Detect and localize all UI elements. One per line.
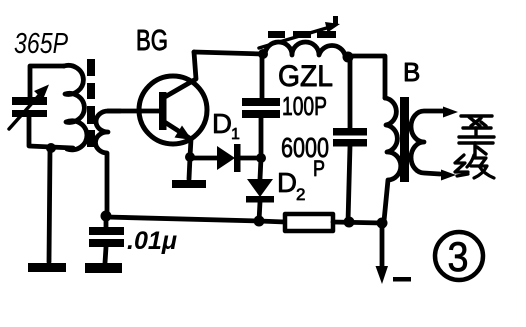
node supply junction: [377, 218, 388, 229]
node emitter junction: [185, 152, 195, 162]
svg-text:3: 3: [448, 233, 469, 280]
core dashed line of L2: [268, 31, 336, 38]
label zhi (to): [459, 116, 494, 137]
wire node down to C4: [348, 57, 353, 128]
svg-text:D: D: [277, 167, 297, 198]
transformer B primary winding: [384, 98, 401, 221]
svg-text:P: P: [313, 156, 325, 181]
label ji (stage): [455, 155, 494, 178]
arrow secondary bottom: [441, 170, 456, 181]
label D2: [277, 167, 305, 204]
node top rail junction: [258, 49, 268, 59]
inductor L2 GZL coil: [265, 42, 345, 55]
svg-text:100P: 100P: [282, 91, 327, 121]
ground bar under C2: [85, 263, 122, 273]
wire bottom rail left: [106, 217, 259, 221]
tuning arrow over L2: [259, 16, 340, 48]
capacitor C1 365P variable plates: [12, 97, 47, 117]
ground bar emitter: [172, 180, 206, 188]
resistor R1: [285, 214, 333, 231]
node L2 right junction: [343, 52, 354, 63]
node junction secondary bottom: [101, 211, 112, 222]
core dashed line of L1: [87, 59, 95, 147]
inductor L1 primary winding: [64, 65, 87, 149]
node bottom rail left junction: [254, 216, 265, 227]
wire top node down to C3: [260, 54, 265, 98]
ground bar left: [28, 263, 66, 272]
label D1: [212, 108, 240, 143]
svg-text:BG: BG: [136, 25, 168, 57]
inductor L1 secondary winding: [95, 111, 120, 215]
wire emitter to ground: [189, 157, 190, 179]
wire bottom rail to resistor: [259, 221, 285, 222]
svg-text:D: D: [212, 108, 232, 139]
wire collector top rail: [194, 52, 263, 54]
svg-text:B: B: [403, 57, 420, 87]
arrow negative supply: [376, 266, 389, 284]
wire L2 to transformer B: [348, 56, 385, 98]
transistor BG base bar: [159, 92, 167, 130]
wire to ground from tank: [49, 149, 50, 262]
circled 3 figure number: [435, 232, 483, 280]
wire D2 to bottom rail: [259, 202, 260, 221]
node C4 bottom junction: [344, 217, 355, 228]
arrow secondary top: [443, 107, 458, 118]
node detector junction: [256, 153, 266, 163]
wire below C1 to bottom of loop: [29, 117, 73, 148]
wire resistor to nodes: [333, 222, 382, 223]
wire C3 to node: [259, 118, 264, 158]
capacitor C3 100P: [242, 98, 280, 118]
svg-text:1: 1: [231, 126, 240, 143]
transformer B core bar: [400, 97, 409, 182]
wire D1 to node: [240, 156, 261, 161]
wire emitter to D1: [190, 156, 218, 161]
diode D1: [217, 144, 241, 172]
label 6000P: [281, 132, 329, 181]
transistor BG emitter lead: [163, 121, 191, 157]
svg-text:2: 2: [296, 185, 305, 204]
capacitor C2 .01u: [89, 216, 124, 263]
svg-text:.01μ: .01μ: [127, 227, 177, 255]
transformer B secondary winding: [411, 111, 448, 174]
capacitor C4 6000P: [333, 128, 367, 147]
wire node to D2: [260, 158, 261, 179]
transistor BG circle: [139, 76, 207, 144]
wire supply down: [380, 223, 385, 268]
transistor BG emitter arrowhead: [175, 126, 193, 141]
transistor BG collector lead: [163, 52, 196, 98]
wire top of tank loop: [30, 66, 64, 97]
label minus: [393, 277, 411, 282]
svg-text:365P: 365P: [14, 28, 69, 60]
capacitor C1 arrow: [9, 85, 49, 130]
wire base lead: [108, 109, 159, 114]
node junction tank bottom: [46, 143, 56, 153]
label xia (next): [459, 143, 493, 157]
diode D2: [246, 179, 274, 203]
svg-text:GZL: GZL: [278, 60, 333, 93]
wire C4 to bottom rail: [348, 146, 350, 222]
